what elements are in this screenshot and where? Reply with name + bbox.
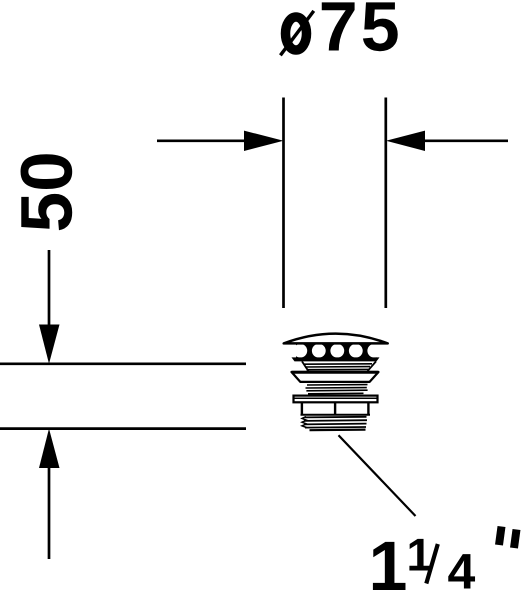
cone top edge [292,371,379,374]
hex body [301,402,371,415]
svg-text:50: 50 [7,151,88,232]
svg-text:1: 1 [369,527,408,592]
fraction slash [426,544,438,584]
lower thread lines [302,417,367,431]
flange inner line [294,397,378,399]
dimension line left segment (ø75) [157,139,250,142]
drain valve perforated band [293,344,381,358]
drain valve cone body [292,372,379,382]
inch double prime mark [499,527,517,549]
drain valve rosette bar [292,357,380,361]
extension line left (ø75) [282,98,285,309]
surface line bottom [0,427,246,430]
arrowhead pointing down (50) [39,325,60,364]
arrowhead left pointing right (ø75) [244,131,284,151]
svg-text:75: 75 [319,0,403,66]
vertical dimension line upper segment (50) [48,250,51,330]
vertical dimension line lower segment (50) [48,462,51,559]
leader line to thread label [339,435,416,516]
dimension line right segment (ø75) [424,139,508,142]
arrowhead right pointing left (ø75) [386,131,425,151]
drain valve flange [294,396,378,403]
drain valve dome cap [284,334,388,344]
dimension label ø75 diameter symbol [280,11,313,55]
svg-text:4: 4 [448,544,476,592]
drain valve collar with threads [302,361,376,371]
surface line top [0,362,246,365]
upper thread lines [306,385,368,394]
extension line right (ø75) [384,98,387,309]
arrowhead pointing up (50) [39,429,60,468]
